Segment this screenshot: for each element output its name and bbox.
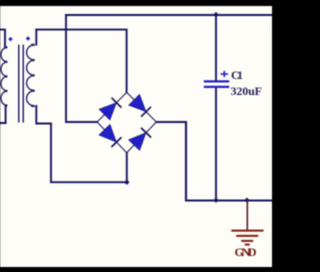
svg-text:GND: GND [235, 245, 257, 259]
bridge rectifier diamond outline [97, 92, 156, 152]
diode D1 (top-left edge, cathode at top vertex) [99, 98, 122, 121]
transformer T secondary winding (right, 4 arcs) [27, 45, 35, 106]
diode D4 (bottom-right edge, cathode at right vertex) [128, 128, 151, 151]
gnd bar 1 [231, 230, 263, 232]
transformer T primary winding (left, 4 arcs) [1, 47, 7, 105]
wire: capacitor top lead [215, 15, 217, 81]
gnd bar 4 [245, 244, 250, 246]
wire: vertical from top rail down left side of bridge [65, 15, 67, 122]
primary winding cusp ticks [5, 47, 8, 105]
junction dot at bottom rail / cap [213, 198, 218, 203]
diode D2 (top-right edge, cathode at right vertex) [129, 94, 152, 117]
wire: horizontal into bridge left vertex [66, 121, 97, 123]
gnd bar 3 [241, 240, 253, 242]
junction dot at top rail / cap [213, 12, 218, 17]
wire: secondary top run to bridge apex [36, 30, 126, 93]
transformer secondary polarity dot [26, 36, 31, 41]
wire: secondary bottom run to bridge bottom vertex [36, 106, 127, 182]
svg-text:C1: C1 [231, 68, 243, 82]
capacitor C1 plates [204, 81, 229, 87]
wire: primary bottom lead to left edge [0, 106, 6, 124]
diode D3 (bottom-left edge, cathode at bottom vertex) [99, 124, 122, 147]
gnd bar 2 [236, 235, 258, 237]
wire: capacitor bottom lead [215, 88, 217, 201]
transformer core lines [19, 45, 23, 123]
wire: bridge right vertex to bottom rail [156, 122, 272, 201]
junction dot at bottom rail / gnd stem [244, 198, 249, 203]
wire: secondary top vertical [35, 30, 37, 45]
gnd stem [246, 201, 248, 231]
junction dot at bridge bottom wire [124, 180, 129, 185]
svg-text:320uF: 320uF [231, 84, 263, 98]
secondary winding cusp ticks [31, 45, 35, 106]
ground symbol GND [231, 201, 263, 245]
transformer primary polarity dot [8, 37, 13, 42]
capacitor plus sign [221, 71, 228, 77]
wire: top + rail from corner to right edge [66, 14, 272, 16]
wire: primary top lead from left edge [0, 30, 5, 48]
